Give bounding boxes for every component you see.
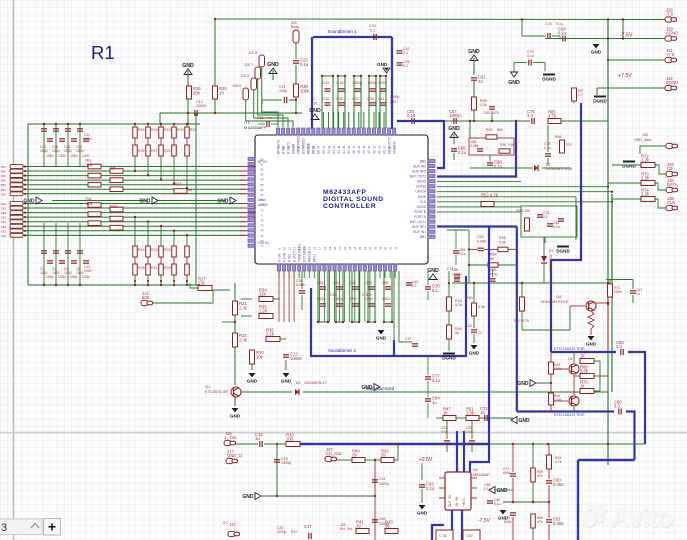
svg-text:47k: 47k <box>537 474 543 478</box>
svg-text:BUF IN1: BUF IN1 <box>413 230 426 234</box>
svg-text:43: 43 <box>322 145 326 149</box>
svg-text:R20: R20 <box>177 128 184 132</box>
svg-text:0.047: 0.047 <box>337 81 346 85</box>
svg-text:C39: C39 <box>368 97 374 101</box>
svg-text:R53: R53 <box>486 128 493 132</box>
svg-text:R17: R17 <box>151 149 158 153</box>
svg-text:24: 24 <box>353 246 357 250</box>
svg-text:29: 29 <box>378 246 382 250</box>
svg-text:R18: R18 <box>151 128 158 132</box>
svg-text:19: 19 <box>328 246 332 250</box>
svg-text:30: 30 <box>383 246 387 250</box>
svg-text:40: 40 <box>337 145 341 149</box>
svg-text:3.3: 3.3 <box>614 404 620 409</box>
svg-text:S2: S2 <box>337 150 341 154</box>
svg-text:GND: GND <box>217 199 229 205</box>
svg-text:GND: GND <box>508 80 520 86</box>
svg-text:R54: R54 <box>490 253 497 257</box>
svg-text:BB2: BB2 <box>420 159 426 163</box>
svg-text:32: 32 <box>393 246 397 250</box>
svg-text:R37: R37 <box>291 530 297 534</box>
svg-text:1SS355TB-17: 1SS355TB-17 <box>304 381 327 385</box>
svg-text:66: 66 <box>260 188 264 192</box>
svg-text:0.1: 0.1 <box>412 284 417 288</box>
svg-text:P1+IN: P1+IN <box>282 252 286 262</box>
svg-text:1: 1 <box>313 97 315 101</box>
svg-text:GEQ OUT2: GEQ OUT2 <box>387 137 391 154</box>
svg-text:100k: 100k <box>300 89 310 94</box>
svg-text:0.1u: 0.1u <box>484 487 491 491</box>
svg-text:C65: C65 <box>477 235 484 239</box>
svg-text:-IN +IN: -IN +IN <box>455 496 459 507</box>
svg-text:LATCH: LATCH <box>415 190 426 194</box>
svg-text:GND: GND <box>376 336 387 341</box>
svg-text:4.7k: 4.7k <box>548 113 557 118</box>
svg-text:REC1B: REC1B <box>308 250 312 262</box>
svg-text:C18: C18 <box>257 116 263 120</box>
svg-text:0.068: 0.068 <box>296 283 305 287</box>
svg-text:DATA: DATA <box>418 195 427 199</box>
svg-text:-7.5V: -7.5V <box>478 518 491 524</box>
svg-text:R7: R7 <box>110 166 116 171</box>
svg-text:0.063: 0.063 <box>553 482 564 487</box>
svg-text:GND: GND <box>497 488 509 494</box>
svg-text:17: 17 <box>318 246 322 250</box>
svg-text:42: 42 <box>327 145 331 149</box>
svg-text:CONTROLLER: CONTROLLER <box>323 203 376 210</box>
svg-text:BIN: BIN <box>1 183 6 187</box>
svg-text:65: 65 <box>260 183 264 187</box>
svg-text:47k: 47k <box>537 520 543 524</box>
svg-text:0.063: 0.063 <box>553 521 564 526</box>
svg-text:C41: C41 <box>379 477 386 481</box>
svg-text:+: + <box>48 519 56 535</box>
svg-text:60k: 60k <box>497 128 503 132</box>
svg-text:P1-IN: P1-IN <box>277 253 281 262</box>
svg-text:4.7k: 4.7k <box>455 303 462 307</box>
svg-text:GND: GND <box>417 511 428 516</box>
svg-text:BIN: BIN <box>1 170 6 174</box>
svg-text:GND: GND <box>281 379 292 384</box>
svg-text:28: 28 <box>373 246 377 250</box>
svg-text:46: 46 <box>352 150 356 154</box>
svg-text:27: 27 <box>368 246 372 250</box>
svg-text:41: 41 <box>377 150 381 154</box>
svg-text:70: 70 <box>260 208 264 212</box>
svg-text:SEL: SEL <box>1 216 7 220</box>
svg-text:CLK: CLK <box>667 200 675 205</box>
svg-text:R56: R56 <box>499 236 506 240</box>
svg-text:1000: 1000 <box>82 154 90 158</box>
svg-text:20k: 20k <box>193 91 201 96</box>
svg-text:2.3k: 2.3k <box>466 410 475 415</box>
svg-text:R14: R14 <box>138 248 145 252</box>
svg-text:GND_data: GND_data <box>634 138 651 142</box>
svg-text:100p: 100p <box>58 275 66 279</box>
svg-text:AVDD: AVDD <box>417 180 427 184</box>
svg-text:J19 6: J19 6 <box>240 74 249 78</box>
svg-text:48: 48 <box>297 145 301 149</box>
svg-text:KTD 1304-R TK/P: KTD 1304-R TK/P <box>554 413 585 417</box>
svg-text:R21: R21 <box>164 149 171 153</box>
svg-text:20: 20 <box>333 246 337 250</box>
svg-text:BIN: BIN <box>1 174 6 178</box>
svg-text:10000: 10000 <box>290 356 302 361</box>
svg-text:51: 51 <box>281 145 285 149</box>
svg-text:100p: 100p <box>46 275 54 279</box>
svg-text:6.8k: 6.8k <box>580 368 589 373</box>
svg-text:J20 7: J20 7 <box>244 63 253 67</box>
svg-text:Q2: Q2 <box>568 357 573 361</box>
svg-text:GND: GND <box>247 379 258 384</box>
svg-text:PORT A: PORT A <box>414 215 427 219</box>
svg-text:BIN: BIN <box>1 188 6 192</box>
svg-text:GND: GND <box>519 418 531 424</box>
svg-text:+?u: +?u <box>266 116 272 120</box>
svg-text:Q4: Q4 <box>556 295 561 299</box>
svg-text:S0: S0 <box>347 150 351 154</box>
svg-text:BUF OUT2: BUF OUT2 <box>410 175 426 179</box>
svg-text:GND: GND <box>468 49 480 55</box>
svg-text:C 54: C 54 <box>439 534 447 538</box>
svg-text:10k: 10k <box>256 355 264 360</box>
svg-text:0.1u: 0.1u <box>426 486 435 491</box>
svg-text:39: 39 <box>356 523 361 528</box>
svg-text:0.1u: 0.1u <box>494 502 501 506</box>
svg-text:DGND: DGND <box>593 99 607 104</box>
svg-text:1000p: 1000p <box>368 81 378 85</box>
svg-text:44: 44 <box>362 150 366 154</box>
svg-text:C38: C38 <box>330 293 336 297</box>
svg-text:R19: R19 <box>164 128 171 132</box>
svg-text:DVDD: DVDD <box>417 205 427 209</box>
svg-text:72: 72 <box>260 219 264 223</box>
svg-text:R28: R28 <box>164 266 171 270</box>
svg-text:M5218AP: M5218AP <box>473 473 490 477</box>
svg-text:GND: GND <box>267 62 279 68</box>
svg-text:SEL: SEL <box>1 207 7 211</box>
svg-text:GND: GND <box>448 126 460 132</box>
svg-text:SEL: SEL <box>1 225 7 229</box>
svg-text:1000p: 1000p <box>390 95 400 99</box>
svg-text:64: 64 <box>260 178 264 182</box>
svg-text:11: 11 <box>287 247 291 250</box>
svg-text:73: 73 <box>260 224 264 228</box>
svg-text:R66: R66 <box>555 135 561 139</box>
svg-text:0k: 0k <box>455 331 459 335</box>
svg-text:13k: 13k <box>198 280 206 285</box>
svg-text:1000p: 1000p <box>449 113 461 118</box>
svg-text:S5: S5 <box>322 150 326 154</box>
svg-text:47: 47 <box>302 145 306 149</box>
svg-text:0.1u: 0.1u <box>432 378 441 383</box>
svg-text:67: 67 <box>260 193 264 197</box>
svg-text:60: 60 <box>260 157 264 161</box>
svg-text:5.6k: 5.6k <box>508 143 515 147</box>
svg-text:2.3k: 2.3k <box>239 338 248 343</box>
svg-text:CLK: CLK <box>420 200 427 204</box>
svg-text:BB1: BB1 <box>420 235 426 239</box>
svg-text:4.7k: 4.7k <box>555 460 562 464</box>
svg-text:1000p: 1000p <box>277 530 287 534</box>
svg-text:BUF NF2: BUF NF2 <box>412 170 426 174</box>
svg-text:KRA102B-RTK/P: KRA102B-RTK/P <box>541 300 569 304</box>
svg-text:-7.5: -7.5 <box>666 11 674 16</box>
svg-text:2.2k: 2.2k <box>641 157 650 162</box>
svg-text:AVss: AVss <box>258 198 266 202</box>
svg-text:D3: D3 <box>549 249 553 253</box>
svg-text:100: 100 <box>286 436 294 441</box>
svg-text:52: 52 <box>276 145 280 149</box>
svg-text:GND_O: GND_O <box>227 453 243 458</box>
svg-text:D1: D1 <box>296 381 301 385</box>
svg-text:2.2k: 2.2k <box>641 175 650 180</box>
svg-text:R10: R10 <box>110 204 118 209</box>
svg-text:22: 22 <box>478 331 482 335</box>
svg-text:DATA: DATA <box>667 182 678 187</box>
svg-text:R25: R25 <box>138 266 145 270</box>
svg-text:GND: GND <box>427 268 439 274</box>
svg-text:DGND: DGND <box>542 77 556 82</box>
svg-text:0.1: 0.1 <box>432 288 438 293</box>
svg-text:470p: 470p <box>490 273 498 277</box>
svg-text:R11: R11 <box>151 266 157 270</box>
svg-text:21: 21 <box>338 246 342 250</box>
svg-text:0.1u: 0.1u <box>458 150 467 155</box>
svg-text:OUT -IN: OUT -IN <box>448 494 452 507</box>
svg-text:S6: S6 <box>317 150 321 154</box>
svg-text:R15: R15 <box>138 128 145 132</box>
svg-text:0.1u: 0.1u <box>556 22 563 26</box>
svg-text:1000: 1000 <box>378 81 386 85</box>
svg-text:C78: C78 <box>545 22 552 26</box>
svg-text:0.1u: 0.1u <box>553 225 560 229</box>
svg-text:GND: GND <box>586 342 597 347</box>
svg-text:63: 63 <box>260 173 264 177</box>
svg-text:C89: C89 <box>452 268 458 272</box>
svg-text:AGND: AGND <box>666 30 678 35</box>
svg-text:23: 23 <box>348 246 352 250</box>
svg-text:39: 39 <box>342 145 346 149</box>
svg-text:3.3: 3.3 <box>616 344 622 349</box>
svg-text:2.7: 2.7 <box>578 93 583 97</box>
svg-text:Q1: Q1 <box>205 385 210 389</box>
svg-text:270: 270 <box>566 143 572 147</box>
svg-text:0.1: 0.1 <box>403 51 408 55</box>
svg-text:C60: C60 <box>466 534 473 538</box>
svg-text:44: 44 <box>317 145 321 149</box>
svg-text:U2: U2 <box>473 468 478 472</box>
svg-text:C58: C58 <box>382 281 388 285</box>
svg-text:10: 10 <box>480 410 485 415</box>
svg-text:J17: J17 <box>222 521 228 525</box>
svg-text:18: 18 <box>323 246 327 250</box>
svg-text:R13: R13 <box>151 248 158 252</box>
svg-text:39: 39 <box>385 523 390 528</box>
svg-text:BUF OUT1: BUF OUT1 <box>410 220 426 224</box>
svg-text:3300p: 3300p <box>379 482 389 486</box>
svg-text:75: 75 <box>260 234 264 238</box>
svg-text:0.056: 0.056 <box>470 144 479 148</box>
svg-text:49: 49 <box>291 145 295 149</box>
svg-text:C35: C35 <box>311 102 317 106</box>
svg-text:35: 35 <box>362 145 366 149</box>
svg-text:42: 42 <box>372 150 376 154</box>
svg-text:C54: C54 <box>366 281 372 285</box>
svg-text:DIGITAL SOUND: DIGITAL SOUND <box>323 196 384 203</box>
svg-text:29: 29 <box>392 145 396 149</box>
svg-text:46: 46 <box>307 145 311 149</box>
svg-text:C26: C26 <box>317 281 323 285</box>
svg-text:1500: 1500 <box>382 297 390 301</box>
svg-text:+IN V-: +IN V- <box>462 498 466 507</box>
svg-text:1.2k: 1.2k <box>259 308 268 313</box>
svg-text:-7.5V: -7.5V <box>620 33 633 39</box>
svg-text:DGND: DGND <box>416 185 426 189</box>
svg-text:R50: R50 <box>466 296 473 300</box>
svg-text:470: 470 <box>493 111 499 115</box>
svg-text:TAPE REC2: TAPE REC2 <box>297 136 301 154</box>
svg-text:R1: R1 <box>91 42 115 63</box>
svg-text:R16: R16 <box>138 149 145 153</box>
svg-text:GND: GND <box>242 494 254 500</box>
svg-text:GND: GND <box>591 50 602 55</box>
svg-text:SEL: SEL <box>1 202 7 206</box>
svg-text:62: 62 <box>260 168 264 172</box>
svg-text:50: 50 <box>286 145 290 149</box>
svg-text:13: 13 <box>298 246 302 250</box>
svg-text:+7.5V: +7.5V <box>618 73 632 79</box>
svg-text:M 62433AFP: M 62433AFP <box>244 126 267 130</box>
svg-text:43: 43 <box>367 150 371 154</box>
svg-text:BIN: BIN <box>1 179 6 183</box>
svg-text:Avito: Avito <box>610 502 673 533</box>
svg-text:1000p: 1000p <box>452 273 462 277</box>
svg-text:0.1: 0.1 <box>403 64 408 68</box>
svg-text:GND: GND <box>377 62 388 67</box>
svg-text:KTC3875-GR: KTC3875-GR <box>205 390 228 394</box>
svg-text:100p: 100p <box>82 275 90 279</box>
svg-text:31: 31 <box>382 145 386 149</box>
svg-text:BIN: BIN <box>1 192 6 196</box>
svg-text:KS5361B-W: KS5361B-W <box>549 254 553 272</box>
svg-text:GND: GND <box>182 63 194 69</box>
svg-text:R52 4.7k: R52 4.7k <box>481 192 499 197</box>
svg-text:J18 5: J18 5 <box>232 84 241 88</box>
svg-text:32: 32 <box>377 145 381 149</box>
svg-text:14: 14 <box>303 246 307 250</box>
svg-text:33: 33 <box>372 145 376 149</box>
svg-text:+2.5V: +2.5V <box>419 457 433 463</box>
svg-text:S1: S1 <box>342 150 346 154</box>
svg-text:606: 606 <box>142 295 150 300</box>
svg-text:1k: 1k <box>188 188 192 192</box>
svg-text:10k: 10k <box>86 163 94 168</box>
svg-text:10k: 10k <box>86 201 94 206</box>
svg-text:J21 8: J21 8 <box>248 51 257 55</box>
svg-text:K OUT1: K OUT1 <box>292 250 296 262</box>
svg-text:1000: 1000 <box>84 269 92 273</box>
svg-text:1u: 1u <box>255 436 260 441</box>
svg-text:100p: 100p <box>466 430 474 434</box>
svg-text:1000p: 1000p <box>281 461 291 465</box>
svg-text:C69: C69 <box>490 268 496 272</box>
svg-text:3.3k: 3.3k <box>480 103 487 107</box>
svg-text:0.22: 0.22 <box>323 81 330 85</box>
svg-text:TAPE REC1: TAPE REC1 <box>298 244 302 262</box>
svg-text:BIN: BIN <box>1 165 6 169</box>
svg-text:40: 40 <box>382 150 386 154</box>
svg-text:0.18: 0.18 <box>407 113 416 118</box>
svg-text:RH_Out: RH_Out <box>340 527 352 531</box>
svg-text:16: 16 <box>313 246 317 250</box>
svg-text:2.2k: 2.2k <box>266 331 275 336</box>
svg-text:PORT B: PORT B <box>414 210 427 214</box>
svg-text:2.2k: 2.2k <box>641 191 650 196</box>
svg-text:74: 74 <box>260 229 264 233</box>
svg-text:0.1: 0.1 <box>370 29 375 33</box>
svg-text:GND: GND <box>230 414 241 419</box>
svg-text:SEL: SEL <box>1 220 7 224</box>
svg-text:1000: 1000 <box>366 297 374 301</box>
svg-text:39: 39 <box>352 452 357 457</box>
svg-text:1000: 1000 <box>70 154 78 158</box>
svg-text:SEL: SEL <box>1 211 7 215</box>
svg-text:26: 26 <box>363 246 367 250</box>
svg-text:1u: 1u <box>636 292 640 296</box>
svg-text:SEL: SEL <box>1 234 7 238</box>
svg-text:0.1u: 0.1u <box>459 252 466 256</box>
svg-text:GND: GND <box>469 351 480 356</box>
svg-text:C62: C62 <box>484 111 490 115</box>
svg-text:0.1u: 0.1u <box>300 62 309 67</box>
svg-text:71: 71 <box>260 213 264 217</box>
svg-text:10: 10 <box>219 91 224 96</box>
svg-text:2200: 2200 <box>350 297 358 301</box>
svg-text:DGND: DGND <box>442 356 456 361</box>
svg-text:CH_Out: CH_Out <box>326 451 342 456</box>
svg-text:34: 34 <box>367 145 371 149</box>
svg-text:37: 37 <box>352 145 356 149</box>
svg-text:41: 41 <box>332 145 336 149</box>
svg-text:Q3: Q3 <box>568 395 573 399</box>
svg-text:GND: GND <box>517 381 529 387</box>
svg-text:100p: 100p <box>279 89 287 93</box>
svg-text:R22: R22 <box>164 248 171 252</box>
svg-text:M62433AFP: M62433AFP <box>323 189 367 196</box>
svg-text:3.3k: 3.3k <box>478 305 485 309</box>
svg-text:61: 61 <box>260 162 264 166</box>
svg-text:38: 38 <box>347 145 351 149</box>
svg-text:0.1u: 0.1u <box>558 31 567 36</box>
svg-text:15: 15 <box>308 246 312 250</box>
svg-text:5.6k: 5.6k <box>499 241 506 245</box>
svg-text:39: 39 <box>381 452 386 457</box>
svg-text:45: 45 <box>312 145 316 149</box>
svg-text:0.1: 0.1 <box>543 215 548 219</box>
svg-text:3300p: 3300p <box>353 81 363 85</box>
svg-text:1u: 1u <box>432 400 437 405</box>
svg-text:GND: GND <box>361 385 373 391</box>
svg-text:DGND: DGND <box>556 249 570 254</box>
svg-text:J17: J17 <box>229 522 236 527</box>
svg-text:C62: C62 <box>466 324 472 328</box>
svg-text:C43: C43 <box>390 100 396 104</box>
svg-text:DPL1: DPL1 <box>313 254 317 262</box>
svg-text:22k: 22k <box>259 291 267 296</box>
svg-text:GND: GND <box>139 199 151 205</box>
svg-text:SoundDimen 1: SoundDimen 1 <box>327 29 357 34</box>
